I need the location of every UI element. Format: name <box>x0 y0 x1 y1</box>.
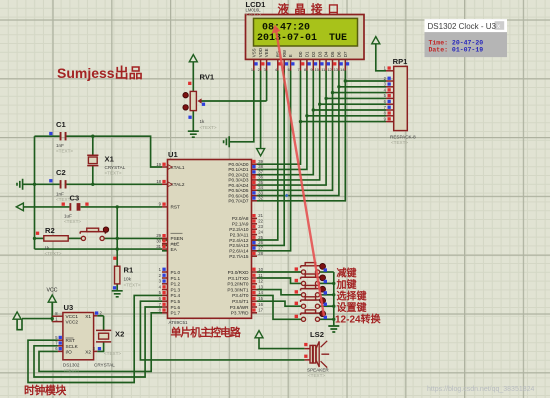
svg-text:<TEXT>: <TEXT> <box>64 219 81 224</box>
wire C1 to U1 XTAL1 <box>67 136 163 167</box>
svg-text:SCLK: SCLK <box>66 344 79 349</box>
wire button SW1 to ground bus <box>320 271 334 273</box>
LCD1 pin 10 (D3) <box>319 59 321 70</box>
U1 pin 13 (P3.3/INT1) <box>252 289 258 291</box>
wire LCD D3 to U1 P0.3 <box>257 71 320 180</box>
junction node D1/RP1 <box>305 114 308 117</box>
svg-text:VCC1: VCC1 <box>66 314 79 319</box>
LCD1 pin 7 (D0) <box>300 59 302 70</box>
terminal left arrow at C3 <box>16 203 23 211</box>
svg-text:加键: 加键 <box>336 278 358 291</box>
RP1 pin 2 <box>386 80 394 82</box>
U1 pin 1 (P1.0) <box>162 271 168 273</box>
junction node XTAL1 <box>91 135 94 138</box>
annotation pointer line <box>276 30 324 316</box>
U1 pin 36 (P0.3/AD3) <box>252 179 258 181</box>
resistor R1 <box>115 266 120 284</box>
capacitor C3 <box>69 203 71 211</box>
svg-text:CRYSTAL: CRYSTAL <box>94 363 115 368</box>
svg-text:VCC2: VCC2 <box>66 320 79 325</box>
svg-text:D7: D7 <box>343 51 348 57</box>
svg-text:27: 27 <box>258 246 263 251</box>
U1 pin 15 (P3.5/T1) <box>252 300 258 302</box>
svg-text:<TEXT>: <TEXT> <box>56 149 73 154</box>
junction node EA row <box>116 247 119 250</box>
svg-text:EA: EA <box>171 247 178 252</box>
svg-text:P2.6/A14: P2.6/A14 <box>229 249 249 254</box>
svg-text:P3.7/RD: P3.7/RD <box>231 311 249 316</box>
wire LCD D1 branch to RP1 pin 8 <box>307 115 386 117</box>
svg-text:选择键: 选择键 <box>337 289 368 302</box>
svg-text:1: 1 <box>251 67 253 72</box>
wire LCD D0 to U1 P0.0 <box>257 71 301 165</box>
U3 pin 7 <box>58 345 63 347</box>
wire U1 P3.3 to button SW3 <box>257 290 301 295</box>
resistor R2 <box>44 236 68 241</box>
wire U1 P3.0 to button SW1 <box>257 271 301 273</box>
svg-text:13: 13 <box>334 67 338 72</box>
svg-text:P3.6/WR: P3.6/WR <box>230 305 249 310</box>
svg-text:AT89C51: AT89C51 <box>169 320 189 325</box>
wire RV1 bottom to ground <box>192 111 194 131</box>
svg-text:DS1302: DS1302 <box>63 363 80 368</box>
svg-text:1k: 1k <box>200 119 206 124</box>
ground below buttons <box>328 326 339 332</box>
svg-text:32: 32 <box>258 196 263 201</box>
wire RV1 top to power terminal <box>192 62 194 91</box>
svg-text:P3.5/T1: P3.5/T1 <box>232 299 249 304</box>
junction node D5/RP1 <box>331 91 334 94</box>
svg-text:<TEXT>: <TEXT> <box>200 125 217 130</box>
U1 pin 38 (P0.1/AD1) <box>252 168 258 170</box>
junction node XTAL2 <box>91 183 94 186</box>
wire VCC terminal stem to U3 <box>51 302 53 322</box>
probe squares C1 C2 <box>49 132 52 135</box>
RP1 pin 4 <box>386 92 394 94</box>
svg-text:P1.2: P1.2 <box>171 282 181 287</box>
RP1 pin 5 <box>386 97 394 99</box>
wire LCD D7 branch to RP1 pin 2 <box>345 80 386 82</box>
U1 pin 31 (EA) <box>162 248 168 250</box>
U1 pin 11 (P3.1/TXD) <box>252 277 258 279</box>
wire LCD D0 branch to RP1 pin 9 <box>301 121 387 123</box>
svg-text:31: 31 <box>156 244 161 249</box>
svg-text:22: 22 <box>258 219 263 224</box>
wire C3 to U1 RST <box>81 206 162 208</box>
svg-text:CRYSTAL: CRYSTAL <box>105 165 126 170</box>
U3 pin 3 (X2) <box>94 350 98 352</box>
svg-text:X2: X2 <box>115 330 124 339</box>
svg-text:U1: U1 <box>168 150 178 159</box>
wire LCD D6 to U1 P0.6 <box>257 71 339 196</box>
svg-text:<TEXT>: <TEXT> <box>63 368 80 373</box>
svg-text:<TEXT>: <TEXT> <box>104 351 121 356</box>
wire LCD D7 to U1 P0.7 <box>257 71 345 201</box>
svg-text:Time: 20-47-20: Time: 20-47-20 <box>429 40 484 47</box>
wire buttons ground bus <box>333 272 335 326</box>
probe square RV1 wiper <box>202 103 205 106</box>
U3 pin 8 <box>52 315 63 317</box>
ground LCD VSS (rotated) <box>224 136 230 147</box>
U1 pin 19 (XTAL1) <box>162 166 168 168</box>
svg-text:P3.4/T0: P3.4/T0 <box>232 293 249 298</box>
speaker LS2 <box>305 349 310 360</box>
svg-text:<TEXT>: <TEXT> <box>45 251 62 256</box>
LCD screen <box>254 18 358 46</box>
LCD1 pin 11 (D4) <box>325 59 327 70</box>
U1 pin 39 (P0.0/AD0) <box>252 163 258 165</box>
wire C2 to U1 XTAL2 <box>67 183 163 185</box>
wire U1 P1.6 to U3 SCLK <box>34 307 162 377</box>
wire button SW2 to ground bus <box>320 282 334 284</box>
svg-text:1nF: 1nF <box>56 191 64 196</box>
overline PSEN <box>171 232 183 234</box>
wire RP1 pin1 to power terminal <box>376 44 386 71</box>
RP1 pin 9 <box>386 121 394 123</box>
U1 pin 30 (ALE) <box>162 243 168 245</box>
junction node D7/RP1 <box>344 79 347 82</box>
wire LCD VDD to power-down terminal <box>260 71 262 149</box>
svg-text:XTAL1: XTAL1 <box>171 165 185 170</box>
wire U1 P1.5 to speaker LS2 <box>140 301 304 360</box>
svg-text:2: 2 <box>258 67 260 72</box>
svg-text:17: 17 <box>258 308 263 313</box>
svg-text:16: 16 <box>258 302 263 307</box>
wire rail to C1 <box>35 135 60 137</box>
svg-text:P1.4: P1.4 <box>171 293 181 298</box>
wire LCD VSS to ground <box>230 71 254 142</box>
svg-text:9: 9 <box>310 67 312 72</box>
ground left of C2 (rotated) <box>17 179 23 190</box>
power terminal aux near U3 <box>13 312 21 319</box>
svg-text:https://blog.csdn.net/qq_38351: https://blog.csdn.net/qq_38351824 <box>427 386 535 393</box>
svg-text:RESPACK-8: RESPACK-8 <box>390 135 416 140</box>
wire U1 P3.4 to button SW5 <box>257 295 301 319</box>
LCD1 pin 9 (D2) <box>312 59 314 70</box>
LCD1 pin 8 (D1) <box>306 59 308 70</box>
U3 pin 6 <box>58 350 63 352</box>
svg-text:P1.1: P1.1 <box>171 276 181 281</box>
svg-text:SPEAKER: SPEAKER <box>307 368 329 373</box>
svg-text:<TEXT>: <TEXT> <box>308 373 325 378</box>
svg-text:10: 10 <box>258 267 263 272</box>
LCD1 pin 5 (RW) <box>283 59 285 70</box>
wire LCD E to U1 P2.6 <box>162 71 291 251</box>
svg-text:<TEXT>: <TEXT> <box>246 12 262 17</box>
svg-text:I/O: I/O <box>66 349 73 354</box>
U1 pin 23 (P2.2/A10) <box>252 228 258 230</box>
U1 pin 4 (P1.3) <box>162 289 168 291</box>
RP1 pin 8 <box>386 115 394 117</box>
U1 pin 21 (P2.0/A8) <box>252 217 258 219</box>
ground below RV1 <box>188 131 199 137</box>
wire X1 bottom lead <box>92 166 94 185</box>
node marker P0.6 <box>285 194 289 198</box>
U1 pin 7 (P1.6) <box>162 306 168 308</box>
U1 pin 32 (P0.7/AD7) <box>252 200 258 202</box>
U1 pin 37 (P0.2/AD2) <box>252 174 258 176</box>
svg-text:7: 7 <box>298 67 300 72</box>
U3 pin 5 <box>58 339 63 341</box>
svg-text:RST: RST <box>171 205 181 210</box>
svg-text:RST: RST <box>66 338 76 343</box>
svg-text:R2: R2 <box>45 226 55 235</box>
svg-text:21: 21 <box>258 213 263 218</box>
svg-text:P2.1/A9: P2.1/A9 <box>232 222 249 227</box>
push button SW4 <box>301 304 305 308</box>
push button reset <box>81 236 85 240</box>
svg-text:P0.5/AD5: P0.5/AD5 <box>228 188 248 193</box>
svg-text:D2: D2 <box>311 51 316 57</box>
push button SW3 <box>301 293 305 297</box>
svg-text:6: 6 <box>288 67 290 72</box>
U1 pin 9 (RST) <box>162 206 168 208</box>
junction node rail/R2 <box>33 237 36 240</box>
probe square RV1 top <box>188 82 191 85</box>
svg-text:Date: 01-07-19: Date: 01-07-19 <box>429 47 484 54</box>
svg-text:1nF: 1nF <box>56 143 64 148</box>
svg-text:U3: U3 <box>64 303 74 312</box>
wire U1 P1.4 to U3 RST <box>28 295 162 382</box>
wire R2 to reset button <box>68 237 81 239</box>
svg-text:RP1: RP1 <box>393 57 409 66</box>
XTAL1 input marker <box>168 165 172 170</box>
wire reset button to U1 PSEN <box>104 237 162 239</box>
wire rail to R2 <box>35 237 44 239</box>
svg-text:P2.3/A11: P2.3/A11 <box>230 232 249 237</box>
svg-text:C1: C1 <box>56 120 66 129</box>
power terminal above RV1 <box>189 55 197 62</box>
U1 pin 17 (P3.7/RD) <box>252 312 258 314</box>
svg-text:P2.7/A15: P2.7/A15 <box>229 254 249 259</box>
wire VCC terminal to C3 <box>23 206 69 208</box>
LCD1 pin 2 (VDD) <box>260 59 262 70</box>
svg-text:P2.0/A8: P2.0/A8 <box>232 216 249 221</box>
U1 pin 14 (P3.4/T0) <box>252 294 258 296</box>
XTAL2 input marker <box>168 182 172 187</box>
svg-text:11: 11 <box>258 273 263 278</box>
junction node D4/RP1 <box>324 97 327 100</box>
wire LCD D6 branch to RP1 pin 3 <box>339 86 386 88</box>
potentiometer RV1 <box>190 91 196 110</box>
probe squares C3 <box>62 203 65 206</box>
LCD1 pin 4 (RS) <box>277 59 279 70</box>
wire left ground rail <box>34 136 36 249</box>
U1 pin 34 (P0.5/AD5) <box>252 189 258 191</box>
U1 pin 16 (P3.6/WR) <box>252 306 258 308</box>
svg-text:34: 34 <box>258 185 263 190</box>
LCD1 pin 14 (D7) <box>344 59 346 70</box>
svg-text:P3.3/INT1: P3.3/INT1 <box>227 287 248 292</box>
RP1 pin 7 <box>386 109 394 111</box>
svg-text:P1.5: P1.5 <box>171 299 181 304</box>
svg-text:P1.7: P1.7 <box>171 311 181 316</box>
svg-text:D1: D1 <box>305 51 310 57</box>
RP1 pin 1 <box>386 70 394 72</box>
LCD module LCD1 body <box>246 15 365 60</box>
resistor pack RP1 body <box>394 66 408 130</box>
U1 pin 29 (PSEN) <box>162 237 168 239</box>
svg-text:VEE: VEE <box>264 48 269 57</box>
junction node D2/RP1 <box>312 108 315 111</box>
svg-text:23: 23 <box>258 224 263 229</box>
svg-text:P2.2/A10: P2.2/A10 <box>229 227 249 232</box>
junction node ground bus <box>332 318 335 321</box>
svg-text:13: 13 <box>258 284 263 289</box>
junction node rail/C2 <box>33 183 36 186</box>
svg-text:28: 28 <box>258 251 263 256</box>
svg-text:X2: X2 <box>85 349 91 354</box>
svg-text:38: 38 <box>258 164 263 169</box>
svg-text:12: 12 <box>327 67 331 72</box>
push button SW2 <box>301 281 305 285</box>
wire X1 top lead <box>92 136 94 155</box>
svg-text:1k: 1k <box>45 246 51 251</box>
power terminal VCC for U3 <box>48 295 56 302</box>
wire LCD D5 to U1 P0.5 <box>257 71 333 191</box>
svg-text:<TEXT>: <TEXT> <box>391 140 408 145</box>
U3 pin 2 (X1) <box>94 315 98 317</box>
svg-text:25: 25 <box>258 235 263 240</box>
U1 pin 26 (P2.5/A13) <box>252 244 258 246</box>
popup DS1302 Clock - U3 <box>425 19 508 57</box>
junction node U3 VCC <box>51 317 54 320</box>
U1 pin 10 (P3.0/RXD) <box>252 271 258 273</box>
svg-text:RW: RW <box>282 49 287 57</box>
wire LCD D1 to U1 P0.1 <box>257 71 307 170</box>
wire U3 X1 pin to crystal <box>97 315 103 317</box>
U1 pin 24 (P2.3/A11) <box>252 234 258 236</box>
push button SW5 <box>301 317 305 321</box>
svg-text:P1.6: P1.6 <box>171 305 181 310</box>
junction node ground bus <box>332 293 335 296</box>
svg-text:30: 30 <box>156 239 161 244</box>
wire aux power terminal jog <box>17 319 22 330</box>
svg-text:XTAL2: XTAL2 <box>171 182 185 187</box>
wire U1 P1.7 to U3 I/O <box>39 313 162 372</box>
U1 pin 25 (P2.4/A12) <box>252 239 258 241</box>
svg-text:2013-07-01TUE: 2013-07-01TUE <box>257 33 347 44</box>
LCD1 pin 6 (E) <box>290 59 292 70</box>
LCD1 pin 1 (VSS) <box>253 59 255 70</box>
junction node D3/RP1 <box>318 103 321 106</box>
junction node D0/RP1 <box>299 120 302 123</box>
svg-text:19: 19 <box>156 162 161 167</box>
U1 pin 27 (P2.6/A14) <box>252 250 258 252</box>
overline EA <box>171 243 177 245</box>
svg-text:P3.2/INT0: P3.2/INT0 <box>227 282 248 287</box>
svg-text:3: 3 <box>264 67 266 72</box>
wire LCD D4 branch to RP1 pin 5 <box>326 97 386 99</box>
U1 pin 35 (P0.4/AD4) <box>252 184 258 186</box>
junction node button/R1 <box>116 237 119 240</box>
U1 pin 8 (P1.7) <box>162 312 168 314</box>
crystal X2 <box>96 330 111 342</box>
svg-text:液晶接口: 液晶接口 <box>278 2 345 16</box>
wire LCD D4 to U1 P0.4 <box>257 71 326 186</box>
wire LCD D5 branch to RP1 pin 4 <box>333 92 387 94</box>
svg-text:08:47:20: 08:47:20 <box>262 22 310 33</box>
wire X2 bottom lead to U3 X2 pin <box>97 342 103 352</box>
svg-text:VDD: VDD <box>258 48 263 57</box>
wire LCD RW to U1 P2.5 <box>162 71 284 246</box>
svg-text:P2.4/A12: P2.4/A12 <box>229 238 249 243</box>
clock chip U3 DS1302 body <box>63 313 94 360</box>
wire RST node down to R1 <box>116 207 118 266</box>
crystal X1 <box>87 155 98 165</box>
svg-text:11: 11 <box>321 67 325 72</box>
U1 pin 2 (P1.1) <box>162 277 168 279</box>
svg-text:D4: D4 <box>324 51 329 57</box>
svg-text:P1.3: P1.3 <box>171 287 181 292</box>
U1 pin 33 (P0.6/AD6) <box>252 195 258 197</box>
svg-text:C2: C2 <box>56 168 66 177</box>
svg-text:12-24转换: 12-24转换 <box>335 313 382 326</box>
svg-text:PSEN: PSEN <box>171 236 184 241</box>
svg-text:1uF: 1uF <box>64 214 72 219</box>
junction node D6/RP1 <box>337 85 340 88</box>
wire rail to U1 EA <box>35 248 163 250</box>
svg-text:8: 8 <box>304 67 306 72</box>
svg-text:P0.1/AD1: P0.1/AD1 <box>228 167 248 172</box>
svg-text:R1: R1 <box>124 266 134 275</box>
U1 pin 3 (P1.2) <box>162 283 168 285</box>
capacitor C1 <box>60 132 62 140</box>
svg-text:P1.0: P1.0 <box>171 270 181 275</box>
wire button SW5 to ground bus <box>320 318 334 320</box>
svg-text:DS1302 Clock - U3: DS1302 Clock - U3 <box>428 22 497 31</box>
svg-text:VCC: VCC <box>47 288 58 294</box>
svg-text:<TEXT>: <TEXT> <box>124 283 141 288</box>
capacitor C2 <box>60 180 62 188</box>
probe square above R1 <box>113 257 116 260</box>
wire LCD D2 to U1 P0.2 <box>257 71 313 175</box>
wire X2 top lead <box>103 316 105 331</box>
wire aux power link to U3 VCC <box>22 318 52 320</box>
svg-text:29: 29 <box>156 233 161 238</box>
probe square near R2 <box>36 232 39 235</box>
svg-text:P2.5/A13: P2.5/A13 <box>229 243 249 248</box>
svg-text:24: 24 <box>258 229 263 234</box>
push button SW1 <box>301 270 305 274</box>
junction node RST/R1 <box>116 205 119 208</box>
wire R1 to ground <box>116 284 118 291</box>
U1 pin 12 (P3.2/INT0) <box>252 283 258 285</box>
svg-text:RV1: RV1 <box>200 73 215 82</box>
svg-text:10k: 10k <box>124 277 132 282</box>
U1 pin 5 (P1.4) <box>162 294 168 296</box>
svg-text:D0: D0 <box>298 51 303 57</box>
wire button SW3 to ground bus <box>320 294 334 296</box>
power terminal speaker supply <box>255 331 263 338</box>
U1 pin 18 (XTAL2) <box>162 183 168 185</box>
svg-text:E: E <box>288 54 293 57</box>
wire LCD D2 branch to RP1 pin 7 <box>313 109 386 111</box>
probe square RV1 bottom <box>188 116 191 119</box>
wire RV1 wiper to LCD VEE <box>201 100 267 102</box>
svg-text:D3: D3 <box>317 51 322 57</box>
svg-text:减键: 减键 <box>337 267 358 280</box>
svg-text:P0.7/AD7: P0.7/AD7 <box>228 199 248 204</box>
svg-text:VSS: VSS <box>251 48 256 57</box>
wire LCD D3 branch to RP1 pin 6 <box>320 103 386 105</box>
RP1 pin 3 <box>386 86 394 88</box>
ground below R1 <box>112 291 123 297</box>
svg-text:D6: D6 <box>337 51 342 57</box>
wire U1 P3.1 to button SW2 <box>257 278 301 283</box>
svg-text:12: 12 <box>258 279 263 284</box>
svg-text:X1: X1 <box>85 314 91 319</box>
